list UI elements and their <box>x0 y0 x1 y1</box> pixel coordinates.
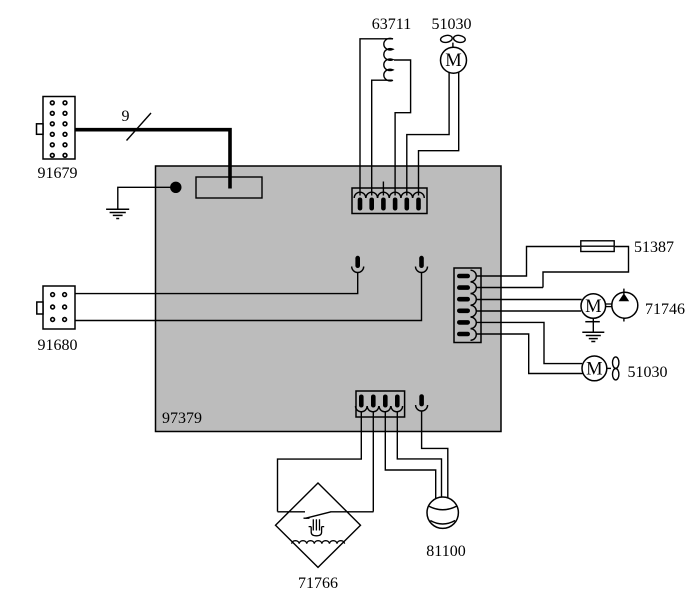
pump 71746 <box>612 289 638 322</box>
wire pin3 to ball <box>385 411 435 499</box>
wire sensor to ball <box>422 411 448 498</box>
svg-text:51387: 51387 <box>634 239 674 256</box>
svg-text:51030: 51030 <box>628 364 668 381</box>
wire pin1 to level switch <box>278 411 362 512</box>
wire 91680 pin A to sensor <box>75 273 358 294</box>
connector 91679 <box>37 97 76 160</box>
wire 9 (thick) <box>75 130 230 189</box>
level switch 71766 diamond <box>276 483 361 567</box>
wire pin4 to motor <box>476 310 581 312</box>
wire pin2 <box>476 287 543 289</box>
fan motor 51030 top <box>440 34 467 73</box>
wire pin6 to fan motor <box>476 334 583 374</box>
svg-text:91680: 91680 <box>38 337 78 354</box>
svg-text:M: M <box>445 51 461 71</box>
switch blade <box>306 512 331 518</box>
wire 91680 pin B to sensor <box>75 273 422 321</box>
control unit 97379 box <box>156 166 502 432</box>
right connector block <box>454 268 481 343</box>
wire motor to pin5 <box>407 73 449 196</box>
switch wire right <box>331 511 374 513</box>
svg-text:71766: 71766 <box>298 575 338 592</box>
svg-text:71746: 71746 <box>645 301 685 318</box>
svg-text:51030: 51030 <box>432 16 472 33</box>
switch wire left <box>278 511 306 513</box>
wire coil top to pin1 <box>360 39 393 196</box>
relay rectangle U1 <box>196 177 262 198</box>
wire pin1 to fuse <box>476 247 580 277</box>
wire coil bottom to pin2 <box>372 80 393 195</box>
coil 63711 <box>384 38 393 81</box>
junction dot <box>170 182 181 193</box>
wire pin2 to level switch <box>372 411 374 512</box>
bottom connector block <box>356 391 405 417</box>
sensor pin bottom <box>416 394 428 411</box>
svg-text:81100: 81100 <box>426 543 465 560</box>
wire pin3 to motor <box>476 299 582 301</box>
wire motor to pin6 <box>419 72 459 195</box>
switch pivot tick <box>304 517 310 519</box>
wire pin4 to ball <box>397 411 441 497</box>
wire coil tap to pin4 <box>394 60 411 196</box>
ground symbol left <box>106 209 129 218</box>
svg-text:97379: 97379 <box>162 410 202 427</box>
ground under motor <box>582 318 604 341</box>
liquid wavy line <box>292 541 345 544</box>
wire pin5 to fan motor <box>476 322 582 363</box>
motor M 71746 <box>581 294 606 319</box>
connector 91680 <box>37 286 75 329</box>
coupling <box>606 304 613 307</box>
sensor pin right <box>416 256 428 273</box>
ball 81100 <box>427 497 458 528</box>
wire fuse to pin2 <box>543 247 629 288</box>
ground wire <box>118 187 176 209</box>
slash on wire 9 <box>127 113 152 141</box>
sensor pin left <box>352 256 364 273</box>
fan motor 51030 right <box>582 356 619 381</box>
stub pin3 <box>382 182 384 196</box>
top connector block <box>352 188 427 214</box>
svg-text:M: M <box>586 359 602 379</box>
svg-text:M: M <box>585 297 601 317</box>
level sensor icon <box>309 519 325 536</box>
fuse 51387 <box>581 241 614 252</box>
svg-text:91679: 91679 <box>38 165 78 182</box>
svg-text:63711: 63711 <box>372 16 411 33</box>
svg-text:9: 9 <box>122 108 130 125</box>
